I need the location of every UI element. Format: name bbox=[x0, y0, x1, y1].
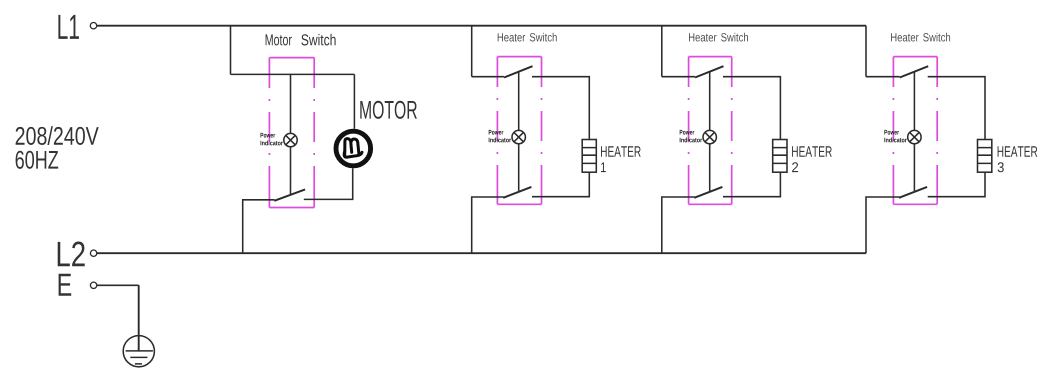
wire L1 drop to motor switch bbox=[230, 26, 232, 75]
wire L1 drop to heater switch 3 bbox=[865, 26, 867, 77]
MOTOR label bbox=[360, 101, 417, 119]
wire heater switch 3 center bottom bbox=[913, 144, 915, 191]
wire motor center top bbox=[290, 74, 292, 133]
wire motor top feed down bbox=[353, 74, 355, 128]
heater switch 3 switch label bbox=[891, 33, 950, 42]
wire heater switch 1 center bottom bbox=[518, 144, 520, 191]
heater element 2 bbox=[773, 140, 787, 173]
switch blade bottom heater switch 3 bbox=[899, 187, 927, 198]
terminal L2 bbox=[90, 250, 96, 256]
wire heater switch 3 top-left contact stub bbox=[866, 76, 900, 78]
terminal L1 bbox=[90, 23, 96, 29]
L1 label bbox=[58, 15, 79, 39]
switch blade bottom heater switch 1 bbox=[503, 187, 531, 198]
wire heater switch 1 bottom-right from heater bbox=[532, 172, 589, 197]
wire heater switch 1 top-left contact stub bbox=[472, 76, 504, 78]
heater switch 2 enclosure dashed box bbox=[689, 57, 732, 205]
switch blade bottom heater switch 2 bbox=[694, 187, 722, 198]
switch blade top heater switch 3 bbox=[900, 66, 929, 77]
wire heater switch 1 top-right to heater bbox=[532, 77, 589, 140]
ground symbol bbox=[123, 285, 154, 367]
wire heater switch 1 center top bbox=[518, 72, 520, 130]
power indicator lamp heater switch 3 bbox=[908, 130, 921, 143]
wire E to earth bbox=[97, 284, 139, 286]
heater switch 1 switch label bbox=[498, 33, 557, 42]
motor switch enclosure dashed box bbox=[269, 58, 314, 208]
power indicator label heater switch 1 bbox=[489, 130, 511, 142]
heater 1 label bbox=[601, 146, 641, 172]
terminal E bbox=[90, 282, 96, 288]
switch blade motor bbox=[274, 189, 305, 200]
wire L1 drop to heater switch 1 bbox=[471, 26, 473, 77]
power indicator label motor bbox=[261, 133, 283, 145]
wire heater switch 2 bottom-right from heater bbox=[723, 172, 780, 197]
wire heater switch 2 center bottom bbox=[709, 144, 711, 191]
heater 3 label bbox=[998, 146, 1038, 172]
heater 2 label bbox=[792, 146, 832, 172]
power indicator lamp heater switch 1 bbox=[512, 130, 525, 143]
wire heater switch 2 bottom-left exit to L2 bbox=[662, 197, 695, 253]
power indicator label heater switch 3 bbox=[884, 130, 906, 142]
switch blade top heater switch 1 bbox=[504, 66, 533, 77]
wire heater switch 2 top-left contact stub bbox=[662, 76, 695, 78]
wire heater switch 2 center top bbox=[709, 72, 711, 130]
heater switch 3 enclosure dashed box bbox=[893, 57, 937, 205]
power indicator label heater switch 2 bbox=[680, 130, 702, 142]
wire L2 bus bbox=[97, 252, 866, 254]
switch blade top heater switch 2 bbox=[695, 66, 724, 77]
heater element 1 bbox=[582, 140, 596, 173]
wire motor bottom to switch bbox=[304, 168, 353, 199]
L2 label bbox=[58, 242, 85, 267]
power indicator lamp heater switch 2 bbox=[703, 130, 716, 143]
wire motor feed across bbox=[231, 73, 355, 75]
supply rating label bbox=[16, 126, 99, 169]
wire heater switch 2 top-right to heater bbox=[723, 77, 780, 140]
wire L1 drop to heater switch 2 bbox=[661, 26, 663, 77]
wire heater switch 3 bottom-left exit to L2 bbox=[866, 197, 900, 253]
wire heater switch 3 center top bbox=[913, 72, 915, 130]
wire motor bottom-left exit to L2 bbox=[243, 200, 275, 253]
power indicator lamp motor bbox=[284, 133, 297, 146]
wire heater switch 3 bottom-right from heater bbox=[928, 172, 985, 197]
heater switch 2 switch label bbox=[689, 33, 748, 42]
heater element 3 bbox=[978, 140, 992, 173]
motor M1 symbol bbox=[336, 131, 371, 166]
wire heater switch 1 bottom-left exit to L2 bbox=[472, 197, 504, 253]
wire heater switch 3 top-right to heater bbox=[928, 77, 985, 140]
wire L1 bus bbox=[97, 25, 866, 27]
Motor Switch label bbox=[266, 34, 336, 46]
wire motor center bottom bbox=[290, 147, 292, 194]
E label bbox=[59, 274, 72, 296]
heater switch 1 enclosure dashed box bbox=[497, 57, 541, 205]
